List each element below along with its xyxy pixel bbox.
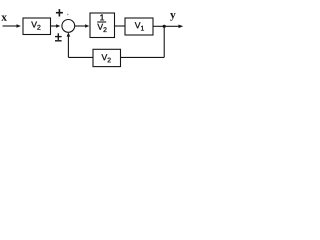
wire: feedback from block V2 going left	[68, 56, 93, 58]
block V2 (input)	[23, 18, 51, 35]
plus sign (top input sign)	[56, 9, 63, 16]
fraction bar of 1/V2	[97, 21, 106, 23]
wire: feedback down from output node	[163, 26, 165, 57]
svg-text:y: y	[170, 9, 176, 21]
plus-minus sign (feedback input sign)	[55, 33, 62, 41]
block 1/V2	[90, 13, 115, 38]
wire between 1/V2 and V1	[115, 25, 126, 27]
node: output junction dot	[163, 25, 166, 28]
wire: input arrow from x into block V2	[3, 24, 21, 27]
block V2 (feedback)	[93, 49, 121, 66]
wire: feedback to block V2 (bottom)	[121, 56, 165, 58]
wire: output arrow to y	[164, 25, 183, 29]
block V1	[125, 18, 153, 35]
wire: arrow from block V2 into summing junction	[51, 24, 61, 27]
summing junction	[62, 20, 75, 33]
svg-text:x: x	[1, 12, 7, 24]
speck	[67, 14, 69, 16]
wire from V1 to output node	[153, 25, 164, 27]
wire: arrow from summing junction into block 1/V2	[75, 24, 90, 27]
wire: feedback up with arrow into summing junction	[67, 32, 71, 57]
